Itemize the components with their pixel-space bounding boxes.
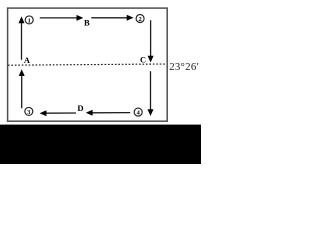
svg-text:A: A bbox=[24, 56, 30, 65]
wire: top-right arrow (B to 2) bbox=[91, 17, 128, 19]
wire: left upper arrow (A to 1) bbox=[19, 15, 154, 117]
svg-text:C: C bbox=[140, 56, 146, 65]
wire: right lower arrow (C down to 4) bbox=[150, 71, 152, 111]
node 4 (circled) bbox=[134, 108, 142, 116]
node 3 (circled) bbox=[25, 107, 33, 115]
svg-text:D: D bbox=[77, 103, 83, 113]
svg-text:B: B bbox=[84, 18, 90, 28]
node 2 (circled) bbox=[136, 15, 144, 23]
dashed line (Tropic 23°26′) bbox=[8, 64, 167, 65]
node 1 (circled) bbox=[25, 16, 33, 24]
wire: right upper arrow (2 down to C) bbox=[150, 20, 152, 57]
svg-text:23°26′: 23°26′ bbox=[169, 61, 199, 73]
svg-text:2: 2 bbox=[138, 16, 141, 23]
svg-text:3: 3 bbox=[27, 109, 30, 116]
wire: bottom-left arrow (D to 3) bbox=[45, 112, 76, 114]
svg-text:1: 1 bbox=[28, 17, 31, 24]
wire: top-left arrow (1 to B) bbox=[40, 17, 79, 19]
wire: bottom-right arrow (4 to D) bbox=[91, 112, 130, 114]
wire: left lower arrow (3 up to A) bbox=[21, 76, 23, 109]
diagram frame bbox=[8, 8, 168, 121]
black band at bottom bbox=[0, 125, 201, 164]
